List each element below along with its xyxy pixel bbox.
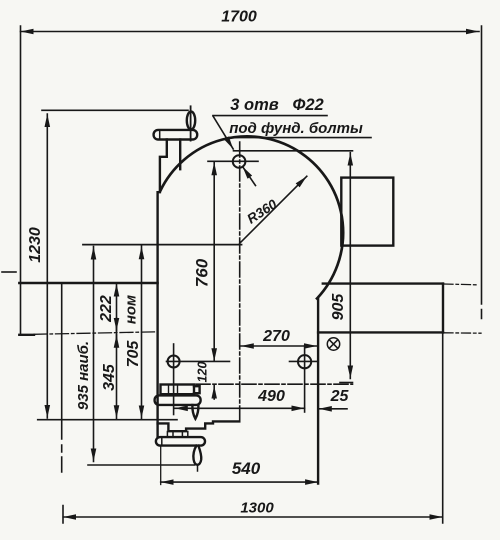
centerline right hole horizontal (290, 360, 318, 362)
knob stub (197, 465, 199, 471)
symbol circle-x (327, 338, 339, 350)
svg-text:490: 490 (257, 388, 285, 405)
stub 1 (166, 432, 168, 438)
dim 1300 right extension (442, 334, 444, 523)
staircase profile (158, 421, 240, 431)
svg-text:935 наиб.: 935 наиб. (75, 341, 92, 410)
dim 1300 line (63, 516, 442, 518)
bracket A tick 2 (177, 385, 179, 395)
svg-text:120: 120 (196, 362, 210, 383)
clamp bar B (155, 395, 201, 405)
front hole (168, 356, 180, 368)
dim 540 line (161, 481, 318, 483)
svg-text:905: 905 (330, 293, 347, 321)
right hole crosshair (298, 355, 311, 368)
stub 3 (181, 432, 183, 438)
arrow 222 lower (116, 318, 118, 331)
right table right edge (442, 284, 444, 333)
dim 222-345 line (116, 284, 118, 419)
bracket step right (194, 386, 200, 393)
lever shaft stub (190, 106, 192, 140)
dim 1300 left extension (62, 283, 63, 523)
dim 1700 line (21, 31, 480, 33)
dim 760-120 line (213, 162, 215, 361)
left box bottom dash-dot (34, 332, 158, 335)
column big arc R360 (160, 136, 343, 298)
extension 540 left / box edge (160, 446, 162, 485)
wire: right extension line of 1700 (481, 26, 483, 319)
dim 25 line with outside arrow (319, 408, 347, 410)
svg-text:705: 705 (125, 340, 142, 368)
svg-text:ном: ном (123, 295, 140, 324)
centerline horizontal y244.6 (83, 244, 242, 246)
wire: left extension line (1700/box edge) (20, 26, 22, 335)
dim 705 line (141, 246, 143, 418)
callout leader arrow (213, 116, 233, 149)
spindle axis dash-dot line (196, 383, 353, 385)
svg-text:760: 760 (193, 258, 212, 287)
stub 2 (172, 432, 174, 438)
screw drop below B (192, 405, 198, 419)
R360 radius line (240, 176, 307, 243)
dim 1230 line (46, 114, 48, 418)
svg-text:3 отв Ф22: 3 отв Ф22 (230, 96, 323, 114)
svg-text:R360: R360 (244, 196, 280, 226)
dim 905 line (349, 153, 351, 379)
arrow 120 lower (213, 386, 215, 399)
centerline vertical x239 (239, 142, 241, 422)
centerline front hole horizontal (167, 360, 230, 362)
clamp bar C (156, 437, 205, 446)
svg-text:1700: 1700 (221, 9, 257, 26)
wire: bottom reference line y420 (38, 419, 177, 421)
right table bottom edge (318, 331, 443, 333)
dim 490 line (175, 407, 305, 409)
clamp bracket A (161, 385, 195, 395)
right table top edge (323, 282, 443, 284)
dim 1230 extension top (42, 109, 188, 111)
dim 270 line (241, 345, 317, 347)
motor rectangle right (341, 178, 393, 246)
centerline top hole horizontal (208, 160, 258, 162)
callout second arrow (243, 167, 256, 186)
callout underline 1 (213, 115, 327, 117)
svg-text:540: 540 (232, 459, 261, 478)
dim 935 line (93, 247, 95, 462)
dim 905 top extension (234, 150, 353, 152)
left step top edge y283 (19, 282, 157, 284)
right table top dash-dot (444, 283, 477, 286)
floor line (88, 464, 195, 466)
bracket A tick 1 (168, 385, 170, 395)
lever knob (187, 112, 195, 130)
callout underline 2 (229, 137, 372, 139)
svg-text:345: 345 (101, 363, 118, 391)
svg-text:25: 25 (330, 388, 350, 405)
svg-text:270: 270 (262, 328, 290, 345)
centerline left box dashdot (2, 271, 16, 273)
svg-text:под фунд. болты: под фунд. болты (229, 120, 363, 137)
centerline front hole vertical (173, 344, 175, 415)
svg-text:1300: 1300 (240, 500, 274, 517)
right table bottom dash-dot (444, 332, 481, 334)
body right edge (317, 299, 319, 484)
stub 4 (187, 432, 189, 438)
handle bar (154, 130, 198, 140)
lever stem right line (179, 140, 181, 170)
body left edge profile (158, 140, 167, 438)
dim 905 bottom tick (340, 382, 353, 384)
left box bottom edge (19, 334, 34, 336)
hanging knob drop (193, 446, 201, 465)
arrow 345 upper (116, 335, 118, 347)
svg-text:222: 222 (98, 295, 115, 323)
svg-text:1230: 1230 (27, 227, 44, 263)
centerline right hole vertical (304, 346, 306, 413)
foundation hole top (233, 155, 246, 168)
